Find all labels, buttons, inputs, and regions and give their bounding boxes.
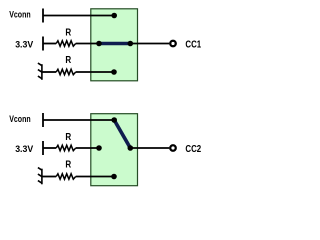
switch body SW2 (bottom analog switch box) bbox=[91, 114, 138, 186]
switch body SW1 (top analog switch box) bbox=[91, 9, 138, 81]
wire 3.3V terminal to resistor (top) bbox=[43, 43, 56, 45]
terminal 3.3V (top) bbox=[42, 37, 44, 51]
wire 3.3V terminal to resistor (bottom) bbox=[43, 147, 56, 149]
switch contact bar (bottom, pole closed to Vconn path) bbox=[114, 120, 130, 148]
terminal Vconn (top) bbox=[42, 9, 44, 23]
node: switch common pin (top) bbox=[128, 41, 134, 47]
svg-text:3.3V: 3.3V bbox=[15, 144, 34, 155]
wire switch common to CC2 terminal bbox=[130, 147, 169, 149]
svg-text:CC2: CC2 bbox=[185, 144, 201, 155]
ground (top) bbox=[38, 63, 42, 80]
wire resistor to switch bottom pin (top) bbox=[76, 71, 114, 73]
svg-text:R: R bbox=[65, 55, 71, 66]
svg-text:R: R bbox=[65, 132, 71, 143]
terminal 3.3V (bottom) bbox=[42, 141, 44, 155]
wire switch common to CC1 terminal bbox=[130, 43, 169, 45]
svg-text:R: R bbox=[65, 27, 71, 38]
wire resistor to switch mid-left pin (bottom) bbox=[76, 147, 99, 149]
resistor R (bottom pull-down Rd) bbox=[56, 174, 75, 179]
svg-text:Vconn: Vconn bbox=[9, 114, 31, 125]
terminal CC1 (open circle) bbox=[170, 41, 176, 47]
node: switch ground pin (top) bbox=[111, 69, 117, 75]
resistor R (top pull-up Rp) bbox=[56, 41, 75, 46]
node: switch ground pin (bottom) bbox=[111, 174, 117, 180]
wire Vconn terminal to switch pin (bottom) bbox=[43, 119, 114, 121]
terminal Vconn (bottom) bbox=[42, 113, 44, 127]
switch contact bar (top, pole closed to 3.3V path) bbox=[99, 42, 130, 46]
svg-text:CC1: CC1 bbox=[185, 40, 201, 51]
node: switch Vconn pin (top) bbox=[111, 13, 117, 19]
wire ground to resistor (bottom) bbox=[42, 176, 56, 178]
node: switch 3.3V pin (top) bbox=[96, 41, 102, 47]
node: switch 3.3V pin (bottom) bbox=[96, 145, 102, 151]
wire Vconn terminal to switch pin (top) bbox=[43, 15, 114, 17]
wire resistor to switch mid-left pin (top) bbox=[76, 43, 99, 45]
wire resistor to switch bottom pin (bottom) bbox=[76, 176, 114, 178]
node: switch common pin (bottom) bbox=[128, 145, 134, 151]
svg-text:R: R bbox=[65, 159, 71, 170]
svg-text:Vconn: Vconn bbox=[9, 10, 31, 21]
node: switch Vconn pin (bottom) bbox=[111, 117, 117, 123]
resistor R (top pull-down Rd) bbox=[56, 69, 75, 74]
ground (bottom) bbox=[38, 168, 42, 185]
svg-text:3.3V: 3.3V bbox=[15, 39, 34, 50]
terminal CC2 (open circle) bbox=[170, 145, 176, 151]
resistor R (bottom pull-up Rp) bbox=[56, 145, 75, 150]
wire ground to resistor (top) bbox=[42, 71, 56, 73]
